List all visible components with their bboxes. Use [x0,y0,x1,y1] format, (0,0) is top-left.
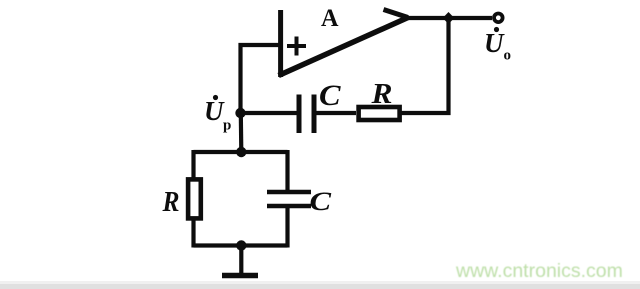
wire: left branch top [191,150,195,178]
op-amp A [279,10,408,78]
wire: resistor right to output branch corner [402,20,449,113]
svg-text:www.cntronics.com: www.cntronics.com [455,260,623,282]
svg-text:U: U [204,96,225,126]
label Uo (U dot o) [484,27,511,64]
wire: node Up up to + input [241,45,281,113]
wire: op-amp output to terminal [408,16,492,20]
label Up (U dot p) [204,95,231,134]
svg-text:o: o [504,48,512,64]
output junction dot [443,12,455,24]
op-amp + input pin mark [287,37,306,56]
ground [222,246,258,276]
node Up junction dot [235,108,245,118]
capacitor C (series) [299,95,314,134]
svg-text:R: R [162,186,180,218]
bottom scan shading [0,284,640,289]
svg-text:U: U [484,28,505,58]
resistor R (series) [359,107,400,120]
wire: tank top horizontal [194,150,288,154]
wire: right branch bottom [285,208,289,248]
wire: node Up down to tank top node [239,113,244,152]
ground junction dot [236,240,246,250]
tank top node junction dot [236,147,246,157]
resistor R (tank) [188,179,201,218]
output terminal circle [494,13,503,22]
svg-text:p: p [223,118,231,134]
svg-text:C: C [319,79,342,112]
wire: right branch top [285,150,289,190]
wire: tank bottom horizontal [194,243,288,247]
capacitor C (tank) [267,192,311,206]
wire: node Up to capacitor C (series) [241,111,298,115]
svg-text:C: C [310,187,332,216]
svg-text:A: A [321,5,339,32]
wire: left branch bottom [191,221,195,248]
wire: capacitor to resistor R (series) [316,111,356,115]
svg-text:R: R [370,78,392,110]
